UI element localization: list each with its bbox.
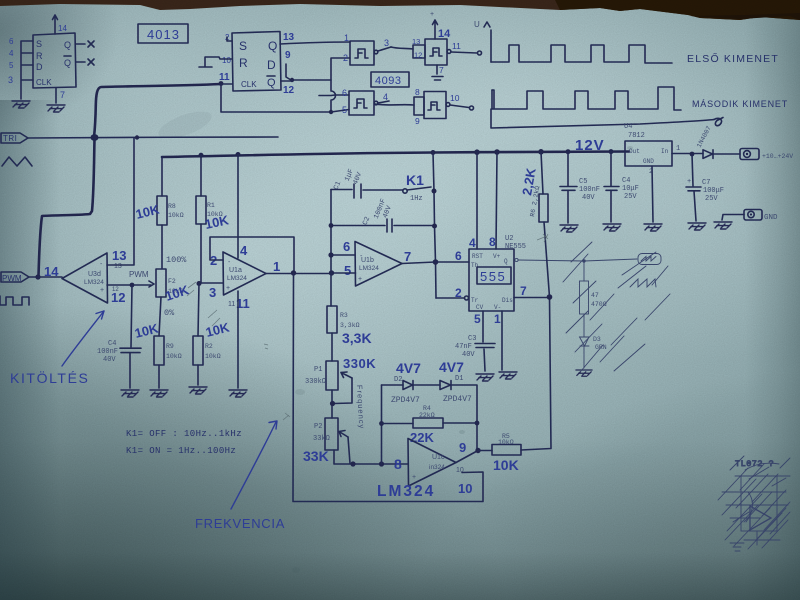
svg-text:+: + [430,11,434,18]
svg-text:In: In [661,148,669,155]
svg-text:4: 4 [383,92,388,102]
svg-text:100nF: 100nF [579,186,600,194]
svg-text:330kΩ: 330kΩ [305,378,326,386]
svg-text:C7: C7 [702,179,710,187]
svg-text:R: R [239,56,248,70]
svg-text:13: 13 [412,37,420,46]
svg-text:4093: 4093 [375,75,401,87]
svg-text:12: 12 [112,287,119,293]
svg-text:555: 555 [480,269,506,284]
svg-text:1Hz: 1Hz [410,195,423,203]
svg-text:K1= OFF : 10Hz..1kHz: K1= OFF : 10Hz..1kHz [126,429,242,439]
svg-text:40V: 40V [582,194,595,202]
svg-text:1: 1 [273,259,280,274]
svg-text:D2: D2 [394,376,402,384]
svg-text:5: 5 [342,105,347,115]
svg-text:Out: Out [629,148,640,155]
svg-text:3: 3 [384,38,389,48]
svg-text:4V7: 4V7 [439,359,464,375]
svg-text:C5: C5 [579,178,587,186]
svg-text:V-: V- [494,304,501,311]
svg-text:MÁSODIK KIMENET: MÁSODIK KIMENET [692,99,788,109]
svg-text:CV: CV [476,304,484,311]
svg-text:P2: P2 [314,423,322,431]
svg-text:13: 13 [114,263,122,270]
svg-text:2: 2 [343,53,348,63]
svg-text:ELSŐ KIMENET: ELSŐ KIMENET [687,51,779,65]
svg-text:C4: C4 [622,177,630,185]
svg-text:100μF: 100μF [703,187,724,195]
svg-text:U: U [474,20,480,29]
svg-text:100%: 100% [166,255,187,265]
svg-text:PWM: PWM [2,274,22,283]
svg-text:7: 7 [404,249,411,264]
svg-text:4: 4 [240,243,248,258]
svg-text:5: 5 [344,263,351,278]
svg-text:+: + [100,287,104,294]
svg-text:9: 9 [459,440,466,455]
svg-text:TRI: TRI [3,134,17,143]
svg-text:330K: 330K [343,356,376,371]
svg-text:KITÖLTÉS: KITÖLTÉS [10,369,89,386]
svg-text:+: + [412,474,416,481]
svg-text:2: 2 [455,286,462,300]
svg-text:6: 6 [343,239,350,254]
svg-text:CLK: CLK [36,78,52,87]
svg-text:9: 9 [285,50,291,61]
svg-text:1: 1 [344,33,349,43]
svg-text:3: 3 [8,75,13,85]
svg-text:K1: K1 [406,172,424,188]
svg-text:3,3kΩ: 3,3kΩ [340,322,360,329]
svg-text:S: S [36,39,42,49]
svg-text:11: 11 [452,41,461,51]
svg-text:+10…+24V: +10…+24V [762,153,793,160]
svg-text:1: 1 [676,145,680,153]
svg-text:22K: 22K [410,430,434,445]
svg-text:10kΩ: 10kΩ [166,353,182,360]
svg-text:Dis: Dis [502,297,513,304]
svg-text:R3: R3 [340,312,348,319]
svg-text:1: 1 [494,312,501,326]
svg-text:47nF: 47nF [455,343,472,351]
svg-text:R4: R4 [423,405,431,412]
svg-text:Q: Q [267,77,276,89]
svg-text:7: 7 [520,284,527,298]
svg-text:U1a: U1a [229,267,242,274]
svg-text:+: + [226,285,230,292]
svg-text:8: 8 [489,235,496,249]
svg-text:FREKVENCIA: FREKVENCIA [195,516,285,531]
svg-text:47: 47 [591,292,599,299]
svg-text:0%: 0% [164,308,175,318]
svg-text:5: 5 [474,312,481,326]
svg-text:10: 10 [458,481,472,496]
svg-text:ZPD4V7: ZPD4V7 [443,395,472,404]
svg-text:U3d: U3d [88,271,101,278]
svg-text:6: 6 [342,88,347,98]
svg-text:3: 3 [209,285,216,300]
svg-text:33kΩ: 33kΩ [313,435,330,443]
svg-text:10: 10 [450,93,460,103]
svg-text:12: 12 [414,51,422,60]
svg-text:10: 10 [222,56,231,65]
svg-text:GND: GND [764,214,778,222]
svg-text:U1c: U1c [432,454,445,461]
svg-text:LM324: LM324 [359,265,379,272]
svg-text:10kΩ: 10kΩ [205,353,221,360]
svg-text:Q: Q [504,258,508,265]
svg-text:LM324: LM324 [377,483,435,500]
svg-text:R: R [36,51,43,61]
svg-text:4: 4 [469,236,476,250]
svg-text:in324: in324 [429,464,445,471]
svg-text:R9: R9 [166,343,174,350]
svg-text:S: S [239,39,247,53]
svg-text:4013: 4013 [147,27,180,42]
svg-text:33K: 33K [303,448,329,464]
svg-text:7: 7 [60,90,65,100]
svg-text:22kΩ: 22kΩ [419,412,435,419]
svg-text:RST: RST [472,253,483,260]
svg-text:Q: Q [268,39,277,53]
svg-text:R1: R1 [207,202,215,209]
svg-text:+: + [358,276,362,283]
svg-text:11: 11 [228,301,235,308]
svg-text:V+: V+ [493,253,501,260]
svg-text:25V: 25V [624,193,637,201]
svg-text:F2: F2 [168,278,176,285]
svg-text:5: 5 [9,61,14,70]
svg-text:D: D [36,62,43,72]
svg-text:PWM: PWM [129,270,149,279]
svg-text:14: 14 [438,28,451,40]
svg-text:10K: 10K [493,457,519,473]
svg-text:U2: U2 [505,235,513,243]
svg-text:R2: R2 [205,343,213,350]
svg-text:+: + [687,178,691,186]
svg-text:4: 4 [9,49,14,58]
svg-text:LM324: LM324 [227,275,247,282]
svg-text:8: 8 [415,87,420,97]
svg-text:D3: D3 [593,336,601,343]
svg-text:7: 7 [439,65,444,75]
svg-text:C4: C4 [108,340,116,348]
svg-text:10μF: 10μF [622,185,639,193]
svg-text:3,3K: 3,3K [342,330,372,346]
svg-text:P1: P1 [314,366,322,374]
svg-text:9: 9 [415,116,420,126]
svg-text:D: D [267,58,276,72]
svg-text:R8: R8 [168,203,176,210]
svg-text:12V: 12V [575,137,605,154]
svg-text:8: 8 [394,456,402,472]
svg-text:U1b: U1b [361,257,374,264]
svg-text:Q: Q [64,40,71,50]
svg-text:25V: 25V [705,195,718,203]
svg-text:K1= ON = 1Hz..100Hz: K1= ON = 1Hz..100Hz [126,446,236,456]
svg-text:ZPD4V7: ZPD4V7 [391,396,420,405]
svg-text:Tr: Tr [471,297,479,304]
svg-text:6: 6 [455,249,462,263]
svg-text:14: 14 [58,24,67,33]
svg-text:7812: 7812 [628,132,645,140]
svg-text:4V7: 4V7 [396,360,421,376]
svg-text:U4: U4 [624,123,632,131]
svg-text:13: 13 [112,248,126,263]
svg-text:40V: 40V [103,356,116,364]
svg-text:Q: Q [64,58,71,68]
svg-text:10kΩ: 10kΩ [498,439,514,446]
svg-text:10kΩ: 10kΩ [168,212,184,219]
svg-text:D1: D1 [455,375,463,383]
svg-text:GND: GND [643,158,654,165]
svg-text:12: 12 [283,85,295,96]
svg-text:C3: C3 [468,335,476,343]
svg-text:100nF: 100nF [97,348,118,356]
svg-text:13: 13 [283,32,295,43]
svg-text:CLK: CLK [241,80,257,89]
svg-text:40V: 40V [462,351,475,359]
svg-text:LM324: LM324 [84,279,104,286]
svg-text:6: 6 [9,37,14,46]
